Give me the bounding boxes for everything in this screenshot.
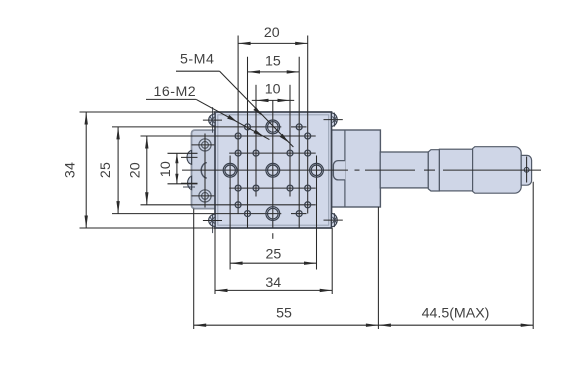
M2 tapped hole #9: [235, 185, 241, 191]
column line at -7.5 (15 dim extension): [247, 57, 249, 228]
extension line at plate left edge (34 bottom dim): [214, 228, 216, 294]
M4 tapped hole #3: [223, 163, 237, 177]
svg-text:44.5(MAX): 44.5(MAX): [422, 306, 490, 322]
dimension 20 (top): [238, 25, 308, 45]
vertical center tick below plate: [272, 233, 274, 239]
dimension 20 (left): [128, 136, 149, 205]
svg-text:5-M4: 5-M4: [180, 52, 214, 68]
counterbored hole on base plate (upper): [199, 139, 211, 151]
M2 tapped hole #4: [305, 202, 311, 208]
micrometer spindle contact pad: [333, 161, 345, 180]
svg-text:25: 25: [98, 162, 114, 178]
34 dim extension line at plate top: [80, 111, 216, 113]
mounting block divider line: [344, 130, 346, 206]
svg-text:10: 10: [265, 82, 281, 98]
svg-text:20: 20: [264, 25, 280, 41]
M2 tapped hole #16: [296, 211, 302, 217]
leader label 5-M4: [176, 52, 293, 147]
M2 tapped hole #5: [235, 150, 241, 156]
M2 tapped hole #1: [235, 133, 241, 139]
base plate left notch (semicircular cutout): [201, 163, 207, 179]
svg-text:34: 34: [62, 162, 78, 178]
extension line at micrometer end (44.5 dim): [532, 182, 534, 329]
row line through M2 row at +5: [229, 187, 316, 189]
M2 tapped hole #6: [253, 150, 259, 156]
side screw at top-left corner of main plate: [203, 107, 222, 133]
M4 tapped hole #1: [266, 120, 280, 134]
main top plate (34x34 stage platform): [215, 112, 332, 228]
M2 tapped hole #8: [305, 150, 311, 156]
M2 tapped hole #13: [245, 124, 251, 130]
M4 tapped hole #4: [310, 163, 324, 177]
column line at +12.5: [316, 156, 318, 270]
svg-text:55: 55: [276, 306, 292, 322]
column line at +7.5: [298, 57, 300, 228]
dimension 34 (left): [62, 112, 88, 228]
side screw at bottom-left corner of main plate: [203, 214, 222, 234]
dimension 34 (bottom): [215, 275, 332, 292]
svg-text:20: 20: [128, 162, 144, 178]
column line at -10 (20 dim extension): [237, 36, 239, 214]
M2 tapped hole #3: [235, 202, 241, 208]
M2 tapped hole #14: [296, 124, 302, 130]
micrometer thimble: [473, 147, 522, 194]
row line through M2 row at +10: [141, 204, 316, 206]
end cap screw: [524, 157, 529, 183]
extension line at block right edge (55/44.5 dims): [377, 207, 379, 329]
svg-text:16-M2: 16-M2: [153, 84, 196, 100]
clamp screw on base plate left edge (upper): [181, 150, 198, 164]
column line at +5: [289, 85, 291, 197]
column line at -12.5 (25 dim extension): [229, 156, 231, 270]
dimension 15 (top): [248, 54, 300, 74]
centerline through counterbored holes: [204, 134, 206, 208]
M2 tapped hole #12: [305, 185, 311, 191]
main plate inner edge highlight: [218, 115, 329, 225]
extension line at plate right edge (34 bottom dim): [331, 228, 333, 294]
M4 tapped hole #2: [266, 207, 280, 221]
vertical centerline of plate: [272, 101, 274, 229]
M2 tapped hole #2: [305, 133, 311, 139]
base plate (lower stage plate, left portion): [192, 130, 223, 209]
row line through M2 row at -5: [229, 152, 316, 154]
leader label 16-M2: [146, 84, 269, 140]
svg-text:15: 15: [265, 54, 281, 70]
micrometer barrel: [439, 149, 472, 191]
M2 tapped hole #15: [245, 211, 251, 217]
extension line at base plate left edge (55 dim): [193, 209, 195, 329]
micrometer sleeve collar (chamfered): [428, 150, 439, 191]
crosshair of lower counterbored hole: [192, 195, 221, 197]
dimension 10 (top): [252, 82, 294, 103]
M2 tapped hole #7: [287, 150, 293, 156]
row line through upper M4/M2 row (y=+12.5 top): [112, 126, 307, 128]
dimension 44.5(MAX) (bottom right): [378, 306, 533, 327]
M2 tapped hole #10: [253, 185, 259, 191]
clamp screw on base plate left edge (lower): [181, 176, 198, 190]
crosshair of upper counterbored hole: [192, 144, 221, 146]
svg-text:34: 34: [265, 275, 281, 291]
row line through M2 row at -10 (20 dim extension): [141, 135, 316, 137]
dimension 25 (left): [98, 127, 120, 214]
svg-text:25: 25: [266, 246, 282, 262]
dimension 25 (bottom): [230, 246, 316, 265]
row line through lower M4/M2 row: [112, 213, 307, 215]
micrometer mounting block: [332, 130, 381, 207]
column line at -5 (10 dim extension): [255, 85, 257, 197]
svg-text:10: 10: [158, 161, 174, 177]
dimension 10 (left): [158, 153, 198, 184]
micrometer end cap / ratchet knob: [521, 155, 531, 185]
column line at +10: [307, 36, 309, 214]
M4 tapped hole #5: [266, 163, 280, 177]
side screw at bottom-right corner of main plate: [324, 213, 343, 227]
M2 tapped hole #11: [287, 185, 293, 191]
34 dim extension line at plate bottom: [80, 227, 216, 229]
horizontal centerline through stage and micrometer axis: [182, 169, 541, 171]
side screw at top-right corner of main plate: [324, 113, 343, 127]
counterbored hole on base plate (lower): [199, 190, 211, 202]
micrometer spindle shaft: [380, 152, 428, 188]
dimension 55 (bottom): [194, 306, 379, 327]
